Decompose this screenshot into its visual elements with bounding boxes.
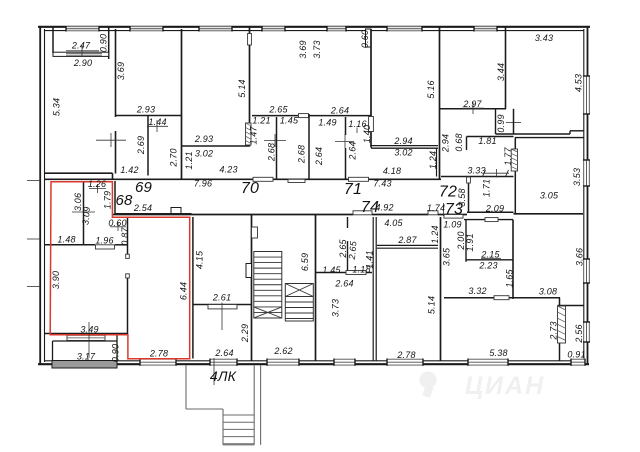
outer right wall inner line	[583, 29, 585, 361]
outer top wall	[38, 26, 590, 28]
window bottom S1	[140, 359, 176, 366]
svg-text:74: 74	[361, 199, 379, 216]
svg-text:5.34: 5.34	[52, 98, 62, 116]
svg-text:2.65: 2.65	[268, 105, 288, 115]
window right E3	[583, 259, 590, 283]
loggia right wall	[108, 26, 110, 59]
svg-text:1.21: 1.21	[252, 116, 270, 126]
window top W7	[474, 26, 497, 32]
dim ext 3.49-3.17	[88, 322, 90, 358]
svg-text:0.90: 0.90	[99, 34, 109, 52]
window bottom S5	[387, 359, 423, 366]
svg-text:2.93: 2.93	[136, 105, 155, 115]
short wall x436.5	[436, 148, 438, 177]
svg-text:3.90: 3.90	[51, 271, 61, 289]
svg-text:2.64: 2.64	[214, 348, 233, 358]
watermark logo	[420, 372, 546, 401]
dim line 2.97	[462, 107, 484, 109]
loggia sill wall	[53, 52, 109, 56]
svg-text:2.93: 2.93	[194, 134, 213, 144]
dim line 2.15	[481, 257, 501, 259]
svg-text:1.79: 1.79	[103, 191, 113, 209]
svg-text:0.60: 0.60	[360, 30, 370, 48]
wall y272.5 under 1.45	[316, 272, 346, 274]
svg-text:0.91: 0.91	[567, 350, 585, 360]
wall x515.3 lower	[514, 138, 516, 214]
svg-text:1.71: 1.71	[482, 179, 492, 197]
svg-text:4.23: 4.23	[219, 165, 237, 175]
corridor bottom wall y214.5 c	[438, 214, 467, 216]
dim line 1.26	[89, 188, 106, 190]
svg-text:3.69: 3.69	[298, 40, 308, 58]
wall A|B x115 lower	[115, 131, 117, 174]
vestibule bottom wall	[186, 408, 223, 410]
svg-text:2.68: 2.68	[267, 143, 277, 162]
wall B divider x148	[147, 116, 149, 176]
svg-text:4ЛК: 4ЛК	[210, 368, 237, 384]
wall D|E x371	[370, 29, 372, 118]
room 2.65 divider x347.5	[347, 217, 349, 228]
room 2.00 left wall x466	[465, 220, 467, 262]
wall x440.5 lower	[440, 217, 442, 361]
balcony 3.17 top wall	[53, 340, 118, 342]
room D inner wall x309	[308, 114, 310, 179]
svg-text:73: 73	[445, 201, 463, 218]
svg-text:0.99: 0.99	[496, 114, 506, 132]
corridor top wall y179 right	[369, 178, 442, 180]
door sill room D divider	[299, 114, 309, 118]
svg-text:4.15: 4.15	[195, 250, 205, 269]
stair pilaster	[246, 264, 252, 278]
svg-text:3.43: 3.43	[535, 33, 553, 43]
svg-text:3.44: 3.44	[496, 63, 506, 81]
wall x559.5	[559, 298, 561, 361]
outer top wall inner line	[44, 30, 584, 32]
svg-text:5.14: 5.14	[237, 79, 247, 97]
stair flight 1 box	[254, 252, 282, 319]
svg-text:7.43: 7.43	[373, 179, 391, 189]
dark window bottom left balcony	[52, 361, 117, 369]
vent hatch on wall C|D	[246, 123, 252, 145]
wall E bottom y146.8 (thick)	[371, 145, 438, 147]
svg-text:3.65: 3.65	[442, 247, 452, 266]
room D inner wall x345 lower	[345, 148, 347, 179]
svg-text:2.69: 2.69	[136, 136, 146, 155]
window bottom S6	[468, 359, 508, 366]
door jamb wall D|E	[369, 117, 374, 132]
svg-text:2.73: 2.73	[549, 321, 559, 340]
svg-text:0.68: 0.68	[454, 133, 464, 151]
svg-text:2.62: 2.62	[273, 346, 292, 356]
svg-text:5.14: 5.14	[427, 296, 437, 314]
wall 1.81 y136.5	[467, 136, 514, 138]
window right E4	[583, 322, 590, 342]
svg-text:1.40: 1.40	[362, 125, 372, 143]
red outline apt 68	[50, 182, 190, 359]
dim line 0.60	[110, 226, 126, 228]
window top W4	[262, 26, 285, 32]
door sill corridor top 1	[253, 177, 273, 181]
window right E1	[583, 76, 590, 114]
svg-text:3.53: 3.53	[572, 168, 582, 186]
stair shaft right wall x315.5	[315, 215, 317, 362]
room 73 wall x468.5	[468, 183, 470, 212]
vestibule step wall	[222, 409, 224, 445]
apt68 wall x127.5 lower	[127, 274, 129, 335]
svg-text:2.70: 2.70	[169, 148, 179, 167]
window top W6	[387, 26, 422, 32]
wall x513.5 right of room 0.99	[513, 109, 515, 134]
room D divider y115 right part	[309, 115, 371, 117]
vent shaft 1.77	[511, 149, 517, 171]
svg-text:7.96: 7.96	[194, 179, 212, 189]
svg-text:3.73: 3.73	[312, 40, 322, 58]
dim tick 2.61	[221, 303, 223, 331]
svg-text:2.64: 2.64	[348, 141, 358, 160]
svg-text:2.64: 2.64	[314, 147, 324, 166]
svg-text:1.91: 1.91	[465, 233, 475, 251]
window top W2	[130, 26, 163, 32]
svg-text:1.45: 1.45	[280, 116, 299, 126]
svg-text:5.38: 5.38	[489, 348, 507, 358]
door sill corridor bottom 1	[353, 211, 372, 215]
svg-text:3.02: 3.02	[394, 148, 412, 158]
wall B divider y115	[116, 115, 183, 117]
door sill apt68 y244.8	[96, 245, 115, 249]
wall E|F x439	[439, 26, 441, 179]
dim tick 4pk	[213, 358, 215, 385]
wall D|E x371 lower	[370, 131, 372, 148]
dim line 2.47	[66, 50, 99, 52]
svg-text:69: 69	[135, 179, 153, 196]
dim tick 3.33 center	[496, 169, 498, 178]
dim tick 3.06	[72, 211, 95, 213]
svg-text:2.94: 2.94	[441, 134, 451, 153]
outer left wall	[39, 26, 41, 365]
vestibule stair bottom	[223, 444, 254, 446]
svg-text:3.02: 3.02	[195, 149, 213, 159]
room D inner wall x345	[345, 117, 347, 135]
svg-text:1.77: 1.77	[503, 147, 513, 166]
svg-text:1.26: 1.26	[88, 179, 106, 189]
room D inner wall x276	[276, 117, 278, 179]
dim tick 1.74	[443, 203, 445, 216]
wall F|G x505.5	[505, 26, 507, 109]
door sill on wall y272.5	[346, 271, 366, 275]
apt68 door jambs x127.5	[126, 254, 130, 258]
wall y297.5	[444, 297, 494, 299]
corridor bottom wall y214.5 b	[372, 214, 428, 216]
apt74 wall x374.5 (thick)	[372, 217, 374, 361]
corridor top wall right section	[441, 176, 514, 178]
svg-text:ЦИАН: ЦИАН	[465, 372, 545, 400]
stair flight 1 arrow cross	[254, 307, 282, 318]
dim line 1.44	[147, 125, 168, 127]
room 4.15 right wall x251.5	[251, 215, 253, 362]
dim tick 0.99	[506, 122, 521, 124]
apt68 balcony sill y335-341	[67, 335, 105, 340]
svg-text:3.73: 3.73	[331, 299, 341, 317]
wall jog x570	[569, 131, 571, 134]
room A bottom wall y173	[44, 172, 113, 174]
dim line x345 crossing	[335, 141, 354, 143]
svg-text:2.54: 2.54	[133, 203, 152, 213]
svg-text:1.81: 1.81	[478, 136, 496, 146]
outer right wall	[587, 26, 589, 364]
svg-text:72: 72	[439, 184, 457, 201]
svg-text:1.49: 1.49	[318, 118, 336, 128]
svg-text:2.56: 2.56	[574, 324, 584, 343]
svg-text:1.44: 1.44	[148, 117, 166, 127]
svg-text:2.64: 2.64	[330, 106, 349, 116]
wall y130.8 right	[570, 130, 584, 132]
door sill wall y297.5	[494, 296, 509, 300]
svg-text:2.94: 2.94	[393, 136, 412, 146]
svg-text:1.21: 1.21	[184, 151, 194, 169]
svg-text:2.15: 2.15	[480, 250, 500, 260]
stair door rect	[252, 227, 258, 238]
room 2.09 bottom wall	[467, 211, 514, 213]
door bump below corridor top	[288, 179, 305, 182]
svg-text:71: 71	[344, 181, 362, 198]
dim tick left wall b	[27, 238, 40, 240]
apt68 room2.78 right wall black	[192, 217, 194, 359]
stub x466.5	[466, 137, 468, 151]
window right E2	[583, 160, 590, 186]
svg-text:3.69: 3.69	[116, 62, 126, 80]
svg-text:3.32: 3.32	[468, 286, 486, 296]
apt74 hall divider y246.5 (thick)	[377, 244, 438, 246]
outer bottom wall inner line	[44, 360, 584, 362]
svg-text:3.08: 3.08	[539, 287, 557, 297]
dim tick left wall a	[27, 180, 40, 182]
svg-text:2.65: 2.65	[347, 240, 359, 261]
room 3.05 bottom wall	[514, 213, 584, 215]
vestibule left wall	[185, 366, 187, 410]
svg-text:0.87: 0.87	[120, 227, 130, 246]
wall C|D x249 upper	[249, 26, 251, 34]
apt68 wall 2.54 y213.8	[115, 213, 192, 215]
window bottom S2	[210, 359, 237, 366]
svg-text:1.74: 1.74	[427, 203, 445, 213]
svg-text:4.18: 4.18	[383, 166, 401, 176]
svg-text:4.53: 4.53	[574, 74, 584, 92]
window bottom S3	[267, 359, 299, 366]
corridor top wall y179	[44, 178, 253, 180]
svg-text:1.42: 1.42	[120, 165, 138, 175]
room 2.00 top wall	[464, 219, 513, 221]
stair flight 2 treads	[285, 296, 313, 298]
svg-text:2.68: 2.68	[297, 145, 307, 164]
svg-text:3.66: 3.66	[575, 248, 585, 266]
apt68 wall x127.5 upper	[127, 217, 129, 258]
wall x513 lower	[512, 220, 514, 299]
window bottom S7	[571, 359, 585, 366]
svg-text:5.16: 5.16	[426, 80, 436, 98]
svg-text:2.78: 2.78	[149, 349, 168, 359]
apt68 wall y244.8	[44, 244, 95, 246]
room 3.05 top wall y137.6	[515, 137, 584, 139]
apt68 wall y333.5	[44, 333, 128, 335]
door sill corridor bottom 2	[428, 211, 438, 215]
room 73 door jamb x468.5	[467, 177, 471, 183]
svg-text:68: 68	[115, 192, 133, 209]
balcony 3.17 right wall	[116, 334, 118, 361]
svg-text:6.59: 6.59	[300, 253, 310, 271]
dim line room D	[264, 140, 286, 142]
room 0.99 left wall	[495, 109, 497, 134]
loggia sill hatch	[66, 53, 102, 55]
wall C|D x249 door jamb	[248, 34, 252, 46]
svg-text:1.65: 1.65	[505, 269, 515, 288]
outer bottom wall	[38, 363, 589, 365]
svg-text:3.09: 3.09	[80, 206, 92, 225]
stair flight 1 treads	[254, 256, 282, 258]
corridor top wall y179 mid	[273, 178, 349, 180]
wall y134 under room 0.99	[496, 133, 571, 135]
apt68 corner wall x115	[114, 181, 116, 214]
stair flight 2 arrow cross	[285, 284, 313, 297]
pillar bump on corridor bottom wall	[171, 208, 181, 215]
svg-text:1.48: 1.48	[57, 235, 75, 245]
loggia left wall	[52, 26, 54, 53]
wall B|C x181.5	[181, 29, 183, 179]
wall y272.5 under 1.18	[366, 272, 372, 274]
wall y297.5 right	[509, 297, 560, 299]
vestibule entry treads	[223, 414, 254, 416]
svg-text:70: 70	[241, 180, 259, 197]
apt68 wall x83.5	[83, 181, 85, 245]
room 2.65 divider x347.5 lower	[347, 241, 349, 273]
svg-text:2.09: 2.09	[485, 204, 504, 214]
room 2.15 wall y259.5	[466, 259, 513, 261]
svg-text:0.90: 0.90	[111, 344, 121, 362]
svg-text:1.24: 1.24	[430, 225, 440, 243]
svg-text:1.47: 1.47	[249, 126, 259, 145]
door sill corridor top 2	[349, 177, 369, 181]
svg-text:3.49: 3.49	[80, 325, 98, 335]
svg-text:3.33: 3.33	[467, 166, 485, 176]
vent shaft right apt	[558, 306, 566, 343]
outer left wall inner line	[44, 29, 46, 362]
dim line room A 2.69	[96, 139, 126, 141]
window top W5	[327, 26, 346, 32]
stair flight 2 box	[285, 284, 313, 322]
svg-text:2.78: 2.78	[396, 350, 415, 360]
svg-text:1.24: 1.24	[428, 151, 438, 169]
svg-text:1.45: 1.45	[322, 265, 341, 275]
wall C bottom y146	[182, 145, 250, 147]
room 2.73 top wall y305.5	[558, 305, 585, 307]
svg-text:3.05: 3.05	[540, 191, 559, 201]
svg-text:3.17: 3.17	[77, 352, 96, 362]
svg-text:4.05: 4.05	[384, 218, 403, 228]
wall F bottom y109	[440, 108, 507, 110]
svg-text:2.97: 2.97	[462, 99, 482, 109]
corridor bottom wall y214.5	[113, 214, 354, 216]
svg-text:1.96: 1.96	[95, 236, 113, 246]
window bottom S4	[334, 359, 355, 366]
window top W3	[199, 26, 232, 32]
apt68 wall y244.8 right	[115, 244, 128, 246]
room D divider y115	[252, 115, 298, 117]
svg-text:0.60: 0.60	[108, 218, 126, 228]
door sill room 2.00 top	[485, 218, 498, 222]
dim line 3.33	[484, 172, 509, 174]
room 2.61 divider y304.5	[193, 304, 251, 306]
svg-text:2.90: 2.90	[73, 58, 92, 68]
wall A|B x115	[115, 29, 117, 117]
svg-text:1.09: 1.09	[443, 220, 461, 230]
svg-text:6.44: 6.44	[179, 282, 189, 300]
jog at x112.5	[112, 173, 114, 179]
wall C|D x249	[249, 45, 251, 147]
dim tick left wall c	[27, 286, 40, 288]
svg-text:2.29: 2.29	[240, 324, 250, 343]
svg-text:2.61: 2.61	[212, 293, 231, 303]
vestibule right wall 2	[260, 366, 262, 445]
dim tick 1.16	[356, 128, 358, 134]
vestibule right wall 1	[253, 366, 255, 445]
balcony 3.17 left wall	[52, 341, 54, 361]
svg-text:1.18: 1.18	[352, 265, 370, 275]
door sill corridor bottom 3	[444, 215, 463, 219]
svg-text:2.47: 2.47	[71, 41, 91, 51]
svg-text:2.64: 2.64	[334, 279, 353, 289]
svg-text:2.87: 2.87	[397, 235, 417, 245]
wall D|E x371 upper notch	[366, 29, 372, 47]
svg-text:2.23: 2.23	[478, 261, 497, 271]
door sill below 2.61 wall	[208, 305, 237, 309]
window top W1	[66, 26, 99, 32]
